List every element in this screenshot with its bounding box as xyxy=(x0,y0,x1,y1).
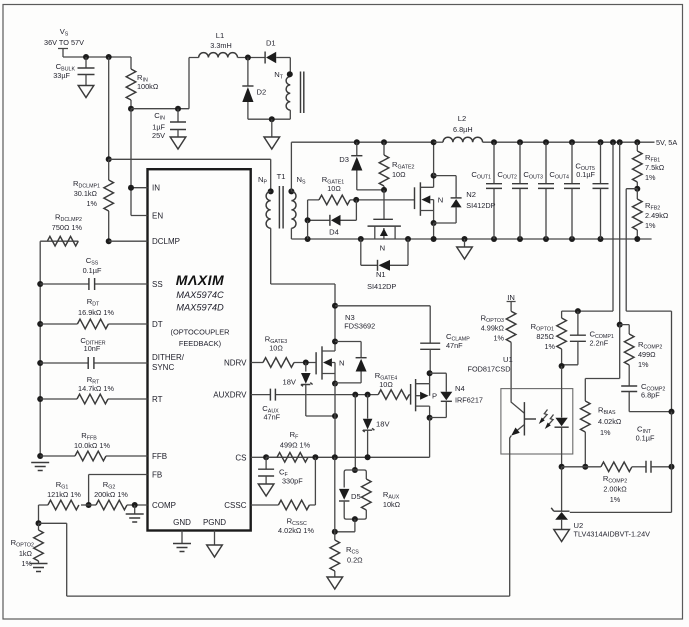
node junction D5 loop top xyxy=(352,467,358,473)
wire VS to primary rail (down at x=108.7) xyxy=(108,57,110,159)
diode U1 LED xyxy=(555,366,569,467)
svg-text:D2: D2 xyxy=(257,88,267,97)
svg-text:D4: D4 xyxy=(329,228,339,237)
node junction N1 gate xyxy=(381,187,387,193)
capacitor COUT1 xyxy=(471,139,502,242)
svg-text:N: N xyxy=(438,196,443,205)
zener diode 18V (N3 gate) xyxy=(282,363,335,417)
svg-text:10.0kΩ 1%: 10.0kΩ 1% xyxy=(74,441,110,450)
node VS input terminal xyxy=(44,27,84,57)
resistor RFB1 xyxy=(633,139,665,189)
node junction VS-down xyxy=(106,54,112,60)
wire Ns bottom to secondary return xyxy=(291,228,651,239)
svg-text:5V, 5A: 5V, 5A xyxy=(656,138,677,147)
svg-text:N1: N1 xyxy=(376,270,386,279)
zener diode 18V (aux) xyxy=(363,395,391,458)
svg-text:16.9kΩ 1%: 16.9kΩ 1% xyxy=(78,308,114,317)
transistor N2 SI412DP xyxy=(415,176,496,223)
resistor ROPTO2 xyxy=(11,523,44,568)
svg-text:18V: 18V xyxy=(282,378,296,387)
node IN net label xyxy=(507,293,516,311)
svg-text:FFB: FFB xyxy=(152,452,167,461)
svg-text:499Ω 1%: 499Ω 1% xyxy=(280,441,311,450)
node junction N4 source xyxy=(427,370,433,376)
svg-text:NDRV: NDRV xyxy=(224,358,247,367)
wire N3 source down xyxy=(334,384,336,458)
wire U1 emitter down xyxy=(509,454,511,596)
svg-text:U1: U1 xyxy=(503,355,513,364)
resistor RGATE3 xyxy=(251,335,316,368)
svg-text:30.1kΩ: 30.1kΩ xyxy=(74,189,98,198)
capacitor COUT5 xyxy=(575,139,608,242)
svg-text:1%: 1% xyxy=(86,199,97,208)
wire left ground bus xyxy=(39,284,41,456)
svg-text:EN: EN xyxy=(152,212,163,221)
svg-text:10Ω: 10Ω xyxy=(327,184,341,193)
wire N2 drain to rail xyxy=(433,142,435,175)
node junction FB/RG1/RG2 xyxy=(86,502,92,508)
inductor L1 xyxy=(199,31,238,58)
svg-text:499Ω: 499Ω xyxy=(638,350,656,359)
svg-text:D5: D5 xyxy=(351,492,361,501)
svg-text:10nF: 10nF xyxy=(84,344,101,353)
transistor U1 photo-transistor xyxy=(510,389,536,454)
svg-text:IN: IN xyxy=(507,293,515,302)
node junction RBIAS bottom xyxy=(582,464,588,470)
node junction AUXDRV/zener2 xyxy=(365,392,371,398)
node junction RGATE1/D4 right xyxy=(353,197,359,203)
diode D1 xyxy=(265,39,290,64)
resistor RIN xyxy=(126,57,159,109)
svg-text:(OPTOCOUPLER: (OPTOCOUPLER xyxy=(171,328,230,337)
svg-text:36V TO 57V: 36V TO 57V xyxy=(44,38,84,47)
svg-text:AUXDRV: AUXDRV xyxy=(213,391,247,400)
svg-text:SYNC: SYNC xyxy=(152,363,174,372)
svg-text:1%: 1% xyxy=(645,173,656,182)
resistor ROPTO1 xyxy=(531,311,567,366)
resistor RCS xyxy=(330,532,363,577)
wire RBIAS feed xyxy=(585,325,619,401)
resistor RCOMP2b xyxy=(601,462,646,504)
wire 5V to opto top node xyxy=(562,142,613,311)
svg-text:PGND: PGND xyxy=(203,518,226,527)
svg-text:3.3mH: 3.3mH xyxy=(210,41,232,50)
svg-text:DITHER/: DITHER/ xyxy=(152,353,185,362)
node junction RIN bottom xyxy=(128,106,134,112)
wire L1 to D1/D2 node xyxy=(238,57,266,59)
transistor N1 SI412DP xyxy=(367,219,401,290)
wire FB pin xyxy=(89,475,148,506)
shunt regulator U2 TLV431 xyxy=(551,467,650,539)
svg-text:7.5kΩ: 7.5kΩ xyxy=(645,163,665,172)
capacitor CCOMP1 xyxy=(562,311,614,365)
node junction CBULK xyxy=(83,54,89,60)
ground PGND pin xyxy=(207,531,223,558)
svg-text:CSSC: CSSC xyxy=(224,501,246,510)
svg-text:4.02kΩ: 4.02kΩ xyxy=(598,417,622,426)
node junction N2 drain xyxy=(431,173,437,179)
svg-text:100kΩ: 100kΩ xyxy=(137,82,159,91)
transformer aux winding NT xyxy=(274,58,304,120)
resistor ROPTO3 xyxy=(481,311,516,388)
resistor RAUX xyxy=(355,470,401,519)
svg-text:1%: 1% xyxy=(493,334,504,343)
wire CS down xyxy=(334,457,336,532)
svg-text:FOD817CSD: FOD817CSD xyxy=(468,364,511,373)
svg-text:D3: D3 xyxy=(339,155,349,164)
wire Np bottom to N3 drain xyxy=(271,228,335,341)
svg-text:14.7kΩ 1%: 14.7kΩ 1% xyxy=(78,384,114,393)
ground below CBULK xyxy=(78,86,94,98)
svg-text:1%: 1% xyxy=(610,495,621,504)
node junction primary top split xyxy=(106,156,112,162)
resistor RGATE4 xyxy=(375,371,411,399)
node junction RCOMP2 tap xyxy=(617,322,623,328)
svg-text:121kΩ 1%: 121kΩ 1% xyxy=(47,490,81,499)
svg-text:2.2nF: 2.2nF xyxy=(590,339,609,348)
node junction AUXDRV/D5 xyxy=(352,392,358,398)
svg-text:47nF: 47nF xyxy=(446,341,463,350)
node junction N3 source xyxy=(332,381,338,387)
ground COMP xyxy=(126,505,144,522)
resistor RDT xyxy=(40,297,147,329)
node junction CCOMP2 bottom xyxy=(669,409,675,415)
svg-text:1%: 1% xyxy=(645,221,656,230)
node junction zener2/CS xyxy=(365,454,371,460)
svg-text:4.99kΩ: 4.99kΩ xyxy=(481,324,505,333)
svg-text:RT: RT xyxy=(152,395,163,404)
capacitor CAUX xyxy=(251,389,379,422)
svg-text:TLV4314AIDBVT-1.24V: TLV4314AIDBVT-1.24V xyxy=(574,530,651,539)
ground ROPTO2 xyxy=(30,564,48,572)
svg-text:L1: L1 xyxy=(216,31,224,40)
node junction NT/D2 ground xyxy=(269,116,275,122)
resistor RF xyxy=(266,430,315,462)
resistor RG1 xyxy=(39,480,82,523)
capacitor CCLAMP xyxy=(420,332,470,372)
diode N2 body xyxy=(434,176,462,223)
diode D2 xyxy=(242,58,290,120)
wire FB divider to ref xyxy=(626,189,671,412)
ground below NT/D2 xyxy=(264,119,280,149)
svg-text:SS: SS xyxy=(152,280,163,289)
wire clamp rail xyxy=(335,306,430,343)
svg-text:N4: N4 xyxy=(455,384,465,393)
resistor RDCLMP2 xyxy=(40,213,82,285)
svg-text:IN: IN xyxy=(152,184,160,193)
svg-text:N: N xyxy=(339,359,344,368)
resistor RFFB xyxy=(40,431,147,461)
svg-text:25V: 25V xyxy=(152,131,165,140)
svg-text:2.49kΩ: 2.49kΩ xyxy=(645,211,669,220)
node junction RCS top xyxy=(332,529,338,535)
capacitor COUT3 xyxy=(523,139,554,242)
node junction D4 left xyxy=(305,217,311,223)
capacitor CSS xyxy=(40,256,147,290)
svg-text:10Ω: 10Ω xyxy=(392,170,406,179)
wire IN/EN feed xyxy=(131,109,148,216)
wire VS rail xyxy=(63,56,131,58)
wire cathode node xyxy=(562,466,601,468)
node junction zener/source xyxy=(332,413,338,419)
wire Ns top to secondary rail xyxy=(291,142,433,191)
svg-text:0.1µF: 0.1µF xyxy=(83,266,102,275)
svg-text:D1: D1 xyxy=(266,39,276,48)
node junction output ground stub xyxy=(462,236,468,242)
wire DCLMP pin xyxy=(50,240,148,242)
inductor L2 xyxy=(434,114,655,142)
svg-text:SI412DP: SI412DP xyxy=(367,282,396,291)
svg-text:DCLMP: DCLMP xyxy=(152,237,180,246)
node junction N1 right xyxy=(405,236,411,242)
svg-text:GND: GND xyxy=(173,518,191,527)
node junction RF right xyxy=(312,454,318,460)
svg-text:FB: FB xyxy=(152,471,162,480)
svg-text:10kΩ: 10kΩ xyxy=(383,500,401,509)
svg-text:N: N xyxy=(380,244,385,253)
diode D5 xyxy=(339,470,361,519)
svg-text:N2: N2 xyxy=(466,190,476,199)
transistor N3 FDS3692 xyxy=(316,313,375,384)
wire ref line xyxy=(570,412,672,513)
node junction FB divider xyxy=(634,186,640,192)
node junction D1/D2 xyxy=(245,55,251,61)
wire N4 drain to CS line xyxy=(266,418,430,458)
capacitor CIN xyxy=(152,109,186,140)
node junction N3 drain xyxy=(332,339,338,345)
wire D5 loop to RCS xyxy=(335,519,355,532)
capacitor CDITHER xyxy=(40,336,147,369)
node junction CF/CS xyxy=(263,454,269,460)
wire primary rail to Np xyxy=(109,159,271,191)
svg-text:1%: 1% xyxy=(600,428,611,437)
node junction IN pin xyxy=(128,185,134,191)
node junction DT bus xyxy=(37,321,43,327)
svg-text:1kΩ: 1kΩ xyxy=(19,549,33,558)
ground below CIN xyxy=(170,137,186,149)
diode D4 xyxy=(308,200,357,237)
node junction 5V feed A xyxy=(610,139,616,145)
svg-text:DT: DT xyxy=(152,320,163,329)
svg-text:200kΩ 1%: 200kΩ 1% xyxy=(94,490,128,499)
resistor RCSSC xyxy=(251,457,316,535)
svg-text:1%: 1% xyxy=(638,360,649,369)
node junction N3 drain / clamp rail xyxy=(332,303,338,309)
node junction N2 return xyxy=(431,236,437,242)
capacitor CCOMP2 xyxy=(621,382,671,412)
resistor RGATE1 xyxy=(308,175,415,220)
svg-text:SI412DP: SI412DP xyxy=(466,201,495,210)
resistor RG2 xyxy=(81,480,148,510)
node junction D5 loop bottom xyxy=(352,516,358,522)
wire COMP feedback to bottom rail xyxy=(39,523,510,596)
node junction 5V feed B xyxy=(617,139,623,145)
IC U-MAX5974 box xyxy=(148,169,251,530)
resistor RCOMP2 xyxy=(620,325,663,386)
wire N2 source to return xyxy=(433,223,435,239)
node junction L2 left xyxy=(431,139,437,145)
diode N3 body xyxy=(335,342,367,383)
svg-text:18V: 18V xyxy=(376,420,390,429)
node junction COMP/ground xyxy=(132,502,138,508)
svg-text:47nF: 47nF xyxy=(263,413,280,422)
diode N1 body xyxy=(361,239,408,271)
node junction DCLMP xyxy=(106,238,112,244)
svg-text:6.8pF: 6.8pF xyxy=(641,391,660,400)
wire D4 to return rail xyxy=(307,220,309,239)
svg-text:MAX5974C: MAX5974C xyxy=(176,290,224,300)
diode D3 xyxy=(339,142,384,190)
svg-text:33µF: 33µF xyxy=(53,71,70,80)
capacitor COUT2 xyxy=(497,139,528,242)
ground CF xyxy=(258,484,274,496)
ground GND pin xyxy=(173,531,191,552)
wire IN node horizontal xyxy=(131,58,199,109)
U1 light arrows xyxy=(539,410,554,430)
ground output xyxy=(457,239,473,259)
svg-text:FEEDBACK): FEEDBACK) xyxy=(179,339,221,348)
svg-text:2.00kΩ: 2.00kΩ xyxy=(603,485,627,494)
svg-text:10Ω: 10Ω xyxy=(379,380,393,389)
transformer T1 secondary winding Ns xyxy=(288,175,306,228)
svg-text:T1: T1 xyxy=(277,172,286,181)
svg-text:825Ω: 825Ω xyxy=(536,332,554,341)
svg-text:COMP: COMP xyxy=(152,501,176,510)
svg-text:L2: L2 xyxy=(458,114,466,123)
resistor RDCLMP1 xyxy=(73,159,113,241)
svg-text:750Ω 1%: 750Ω 1% xyxy=(52,223,83,232)
node junction RGATE2 top xyxy=(381,139,387,145)
transformer T1 core xyxy=(277,172,286,229)
resistor RGATE2 xyxy=(379,142,414,190)
svg-text:0.1µF: 0.1µF xyxy=(576,170,595,179)
svg-text:330pF: 330pF xyxy=(282,477,303,486)
svg-text:0.2Ω: 0.2Ω xyxy=(347,556,363,565)
node junction N2 source xyxy=(431,220,437,226)
svg-text:IRF6217: IRF6217 xyxy=(455,396,483,405)
node junction RFB2 bottom xyxy=(634,236,640,242)
ground RCS xyxy=(327,577,343,589)
ground FFB bus xyxy=(31,463,49,471)
svg-text:4.02kΩ 1%: 4.02kΩ 1% xyxy=(278,526,314,535)
node junction N3 gate xyxy=(303,360,309,366)
node junction N1 left xyxy=(358,236,364,242)
node junction CINT right xyxy=(669,464,675,470)
capacitor CBULK xyxy=(53,57,94,86)
svg-text:0.1µF: 0.1µF xyxy=(636,434,655,443)
ground U2 xyxy=(554,530,570,542)
node junction ROPTO2 top xyxy=(36,520,42,526)
node junction secondary return left xyxy=(305,236,311,242)
node junction FFB bus end xyxy=(37,453,43,459)
optocoupler U1 box xyxy=(501,389,573,454)
wire D5 branch xyxy=(354,395,356,470)
svg-text:P: P xyxy=(432,392,437,401)
node junction opto LED anode xyxy=(559,363,565,369)
capacitor CF xyxy=(258,457,303,485)
node junction ROPTO1/CCOMP1 top xyxy=(575,308,581,314)
IC pin labels xyxy=(152,184,247,528)
svg-text:6.8µH: 6.8µH xyxy=(453,125,473,134)
svg-text:ΜΛΧΙΜ: ΜΛΧΙΜ xyxy=(176,272,224,288)
transistor N4 IRF6217 xyxy=(411,373,483,418)
wire 5V to comp/bias xyxy=(619,142,621,324)
resistor RBIAS xyxy=(581,401,622,467)
capacitor COUT4 xyxy=(549,139,580,242)
node junction LED cathode xyxy=(559,464,565,470)
node junction D3 top xyxy=(354,139,360,145)
wire N1 gate xyxy=(383,190,385,219)
diode N4 body xyxy=(430,373,453,417)
node junction RT bus xyxy=(37,396,43,402)
svg-text:MAX5974D: MAX5974D xyxy=(176,303,224,313)
node junction DITHER bus xyxy=(37,360,43,366)
resistor RRT xyxy=(40,375,147,404)
svg-text:1%: 1% xyxy=(544,342,555,351)
svg-text:CS: CS xyxy=(235,453,246,462)
node junction N4 drain xyxy=(427,415,433,421)
svg-text:FDS3692: FDS3692 xyxy=(344,322,375,331)
node junction SS bus xyxy=(37,281,43,287)
svg-text:10Ω: 10Ω xyxy=(269,344,283,353)
resistor RFB2 xyxy=(633,189,669,239)
transformer T1 primary winding Np xyxy=(258,175,274,228)
capacitor CINT xyxy=(636,425,672,473)
node junction CIN xyxy=(175,106,181,112)
wire CS pin xyxy=(251,456,266,458)
node junction N3 source/CS xyxy=(332,454,338,460)
